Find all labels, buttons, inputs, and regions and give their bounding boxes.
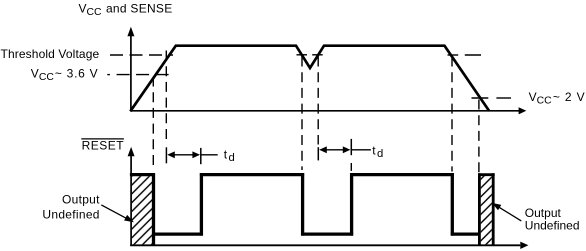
top y-axis arrowhead — [127, 27, 134, 36]
right hatched region left edge — [478, 173, 481, 245]
left undefined hatched region fill — [132, 176, 152, 244]
right undefined hatched region fill — [481, 176, 492, 244]
svg-text:RESET: RESET — [82, 138, 125, 152]
right leader arrowhead — [492, 203, 501, 210]
vertical dashed guide v4 (dip right crossing) — [317, 57, 319, 145]
right hatched region right edge — [492, 173, 495, 245]
reset rising edge 1 — [200, 173, 203, 236]
reset high segment 2 — [350, 173, 454, 176]
left leader line — [101, 205, 127, 219]
td1 left terminator bar — [165, 147, 167, 163]
svg-text:VCC~ 3.6 V: VCC~ 3.6 V — [31, 67, 99, 83]
reset falling edge 2 — [451, 173, 454, 236]
vertical dashed guide v1 (3.6V crossing) — [152, 77, 154, 171]
vertical dashed guide v6 (fall 2V crossing) — [478, 100, 480, 174]
td1 extension line — [202, 154, 218, 156]
td2 right arrowhead — [343, 146, 351, 153]
reset falling edge 1 — [301, 173, 304, 236]
vcc 2V dashes — [472, 97, 489, 99]
top y-axis — [130, 35, 132, 112]
vertical dashed guide v2 (threshold crossing) — [165, 51, 167, 145]
svg-text:VCC and SENSE: VCC and SENSE — [79, 2, 173, 18]
reset rising edge 2 — [350, 173, 353, 236]
threshold dash at dip left crossing — [297, 54, 308, 56]
svg-text:Output: Output — [62, 193, 100, 207]
reset low segment 1 — [152, 232, 203, 235]
RESET label overline — [81, 138, 124, 140]
reset low segment 3 — [451, 232, 480, 235]
reset high segment 1 — [200, 173, 304, 176]
right leader line — [499, 207, 522, 221]
top x-axis arrowhead — [519, 107, 527, 114]
td1 right arrowhead — [192, 151, 200, 158]
td2 right terminator bar — [350, 139, 352, 155]
svg-text:td: td — [224, 148, 235, 165]
left leader arrowhead — [124, 215, 134, 222]
vertical dashed guide v5 (fall threshold crossing) — [451, 57, 453, 172]
svg-text:VCC~ 2 V: VCC~ 2 V — [529, 90, 586, 106]
svg-text:td: td — [372, 143, 383, 160]
td2 left terminator bar — [317, 147, 319, 160]
threshold dashes at fall crossing — [448, 54, 459, 56]
td2 extension line — [352, 149, 371, 151]
right hatched region top edge — [478, 173, 495, 176]
threshold dash at dip right crossing — [312, 54, 323, 56]
bottom x-axis arrowhead — [520, 242, 528, 249]
svg-text:Threshold Voltage: Threshold Voltage — [1, 47, 100, 61]
td2 arrow shaft — [321, 149, 350, 151]
td1 arrow shaft — [169, 154, 198, 156]
top x-axis (baseline) — [130, 110, 519, 112]
vertical dashed guide v3 (dip left crossing) — [301, 57, 303, 171]
td1 right terminator bar — [200, 148, 202, 164]
bottom y-axis arrowhead — [128, 147, 135, 156]
reset low segment 2 — [301, 232, 353, 235]
dash below td2 right bar — [350, 163, 352, 171]
threshold dashed level line — [110, 54, 173, 56]
td1 left arrowhead — [167, 151, 175, 158]
vcc 3.6V dash-dot level line — [107, 74, 110, 76]
vcc waveform — [130, 46, 489, 112]
svg-text:Undefined: Undefined — [525, 219, 580, 233]
bottom x-axis (baseline) — [130, 244, 520, 246]
svg-text:Undefined: Undefined — [42, 208, 99, 222]
td2 left arrowhead — [319, 146, 327, 153]
left hatched region top edge — [130, 173, 155, 176]
bottom y-axis — [130, 154, 132, 246]
left hatched region right edge — [152, 173, 155, 246]
